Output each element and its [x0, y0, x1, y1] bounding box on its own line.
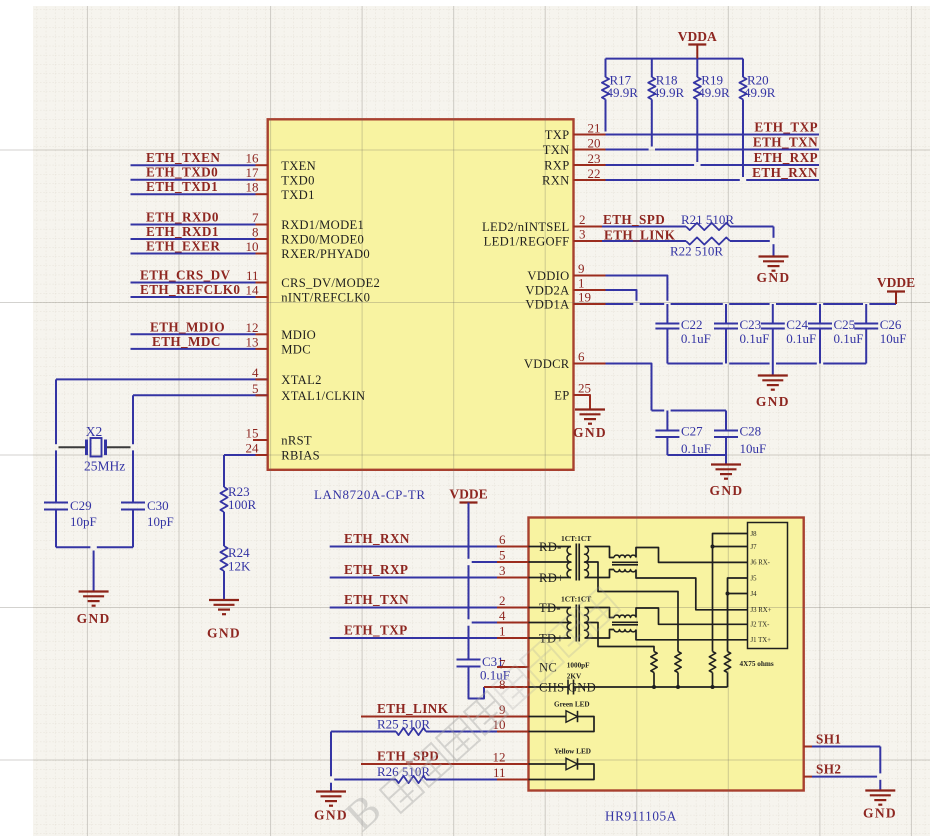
- pin 11 CRS_DV/MODE2 / net ETH_CRS_DV: [131, 268, 381, 291]
- capacitor C24 0.1uF: [761, 304, 816, 364]
- svg-text:4: 4: [499, 608, 506, 623]
- svg-text:10pF: 10pF: [147, 514, 174, 529]
- net SH1 wire: [804, 732, 881, 747]
- svg-text:nINT/REFCLK0: nINT/REFCLK0: [281, 291, 370, 305]
- svg-text:49.9R: 49.9R: [653, 85, 685, 100]
- LED yellow (pins 12/11): [529, 748, 595, 780]
- svg-text:9: 9: [578, 261, 585, 276]
- svg-text:GND: GND: [756, 394, 790, 409]
- ground GND (R24): [207, 600, 241, 641]
- svg-text:C26: C26: [880, 317, 902, 332]
- resistor 75 ohm #3: [709, 652, 715, 690]
- capacitor C30 10pF: [121, 498, 174, 547]
- svg-text:J7: J7: [751, 544, 758, 551]
- svg-text:VDDIO: VDDIO: [527, 269, 569, 283]
- svg-text:C24: C24: [786, 317, 808, 332]
- pin 16 TXEN / net ETH_TXEN: [131, 150, 317, 173]
- wire R21/R22 to ground: [773, 227, 775, 257]
- wire C31 to pin 8: [469, 667, 485, 699]
- svg-text:10: 10: [246, 239, 259, 254]
- pin 3 LED1/REGOFF / net ETH_LINK: [484, 227, 686, 249]
- svg-text:nRST: nRST: [281, 434, 312, 448]
- svg-text:ETH_TXP: ETH_TXP: [344, 623, 408, 638]
- svg-text:LED2/nINTSEL: LED2/nINTSEL: [482, 220, 570, 234]
- pin 3 RD+ / net ETH_RXP: [330, 562, 529, 578]
- resistor R23 100R: [220, 484, 256, 512]
- capacitor C22 0.1uF: [655, 304, 710, 364]
- svg-text:13: 13: [246, 334, 259, 349]
- svg-text:RBIAS: RBIAS: [281, 449, 320, 463]
- svg-text:ETH_REFCLK0: ETH_REFCLK0: [140, 282, 240, 297]
- svg-text:ETH_EXER: ETH_EXER: [146, 239, 220, 254]
- svg-text:GND: GND: [207, 626, 241, 641]
- svg-text:SH2: SH2: [816, 762, 841, 777]
- svg-text:12: 12: [493, 750, 506, 765]
- choke L2 (TX): [585, 608, 639, 639]
- svg-text:MDC: MDC: [281, 343, 311, 357]
- pin 6 RD- / net ETH_RXN: [330, 531, 529, 547]
- svg-text:1CT:1CT: 1CT:1CT: [561, 534, 591, 543]
- capacitor C26 10uF: [854, 304, 906, 364]
- svg-text:Yellow LED: Yellow LED: [554, 748, 591, 756]
- capacitor C31 0.1uF: [457, 654, 510, 683]
- svg-text:4X75 ohms: 4X75 ohms: [740, 660, 774, 668]
- svg-text:R21 510R: R21 510R: [681, 212, 734, 227]
- pin 6 VDDCR wire: [524, 349, 726, 411]
- resistor 75 ohm #4: [724, 652, 730, 688]
- svg-text:100R: 100R: [228, 497, 257, 512]
- svg-text:3: 3: [499, 563, 506, 578]
- capacitor C28 10uF: [714, 411, 766, 457]
- svg-text:RXD1/MODE1: RXD1/MODE1: [281, 218, 364, 232]
- svg-text:ETH_CRS_DV: ETH_CRS_DV: [140, 268, 231, 283]
- pin 2 TD- / net ETH_TXN: [330, 592, 529, 608]
- wire bus top rail for R17-R20: [606, 58, 744, 60]
- HR pin names: [539, 540, 596, 695]
- svg-text:2KV: 2KV: [567, 673, 582, 681]
- svg-text:25MHz: 25MHz: [84, 459, 125, 474]
- wire SH1/SH2 junction to ground: [879, 747, 881, 791]
- svg-text:15: 15: [246, 426, 259, 441]
- wire RX choke to J6: [636, 548, 748, 563]
- svg-text:20: 20: [588, 135, 601, 150]
- svg-text:Green LED: Green LED: [554, 701, 590, 709]
- svg-text:5: 5: [252, 381, 259, 396]
- wire bottom rail X2: [56, 547, 133, 591]
- svg-text:6: 6: [499, 532, 506, 547]
- transformer T2 (TX) 1CT:1CT: [529, 595, 592, 642]
- transformer T1 (RX) 1CT:1CT: [529, 534, 592, 581]
- svg-text:5: 5: [499, 548, 506, 563]
- svg-text:49.9R: 49.9R: [744, 85, 776, 100]
- svg-text:1000pF: 1000pF: [567, 662, 590, 670]
- connector J1 HR911105A body: [529, 518, 804, 791]
- pin 1 TD+ / net ETH_TXP: [330, 623, 529, 639]
- svg-text:14: 14: [246, 283, 260, 298]
- svg-text:24: 24: [246, 441, 260, 456]
- svg-text:4: 4: [252, 365, 259, 380]
- svg-text:C29: C29: [70, 498, 92, 513]
- wire RBIAS down: [223, 455, 225, 487]
- svg-text:12: 12: [246, 320, 259, 335]
- svg-text:ETH_SPD: ETH_SPD: [603, 212, 665, 227]
- wire J5/J4 to resistor: [726, 578, 748, 652]
- pin 5 XTAL1/CLKIN wire: [133, 381, 365, 503]
- pin 13 MDC / net ETH_MDC: [131, 334, 311, 357]
- svg-text:TXP: TXP: [545, 128, 570, 142]
- svg-text:10uF: 10uF: [740, 441, 767, 456]
- svg-text:11: 11: [493, 765, 506, 780]
- pin 9 VDDIO wire: [527, 261, 667, 301]
- svg-text:J4: J4: [751, 591, 758, 598]
- resistor 75 ohm #1: [651, 652, 657, 690]
- svg-text:R22 510R: R22 510R: [670, 244, 723, 259]
- wire crystal left leg down: [55, 379, 57, 444]
- resistor R24 12K: [220, 545, 251, 574]
- svg-text:SH1: SH1: [816, 732, 841, 747]
- IC U1 LAN8720A-CP-TR body: [268, 119, 574, 470]
- svg-text:0.1uF: 0.1uF: [681, 441, 711, 456]
- svg-text:C28: C28: [740, 424, 762, 439]
- svg-text:6: 6: [578, 349, 585, 364]
- resistor R20 49.9R: [739, 59, 775, 177]
- svg-text:10uF: 10uF: [880, 331, 907, 346]
- svg-text:23: 23: [588, 151, 601, 166]
- svg-text:16: 16: [246, 151, 260, 166]
- svg-text:TXD0: TXD0: [281, 173, 314, 187]
- svg-text:C27: C27: [681, 424, 703, 439]
- svg-text:VDD2A: VDD2A: [525, 284, 569, 298]
- svg-text:GND: GND: [77, 611, 111, 626]
- svg-text:2: 2: [579, 212, 586, 227]
- svg-text:12K: 12K: [228, 559, 251, 574]
- pin 24 RBIAS wire: [224, 441, 320, 463]
- wire RX center tap to resistor: [585, 562, 679, 652]
- pin 5 RD center tap wire (VDDE): [472, 548, 529, 563]
- capacitor C23 0.1uF: [714, 304, 769, 364]
- resistor R25 510R on pin 10: [331, 717, 529, 736]
- pin 25 EP wire: [554, 381, 591, 410]
- svg-text:GND: GND: [573, 425, 607, 440]
- svg-text:21: 21: [588, 120, 601, 135]
- resistor R22 510R: [670, 237, 770, 258]
- wire TX choke to J2: [636, 608, 748, 624]
- svg-text:GND: GND: [757, 270, 791, 285]
- choke L1 (RX): [585, 547, 639, 578]
- ground GND (C27/C28): [710, 465, 744, 499]
- wire TX center tap to resistor: [585, 623, 655, 652]
- wire to ground (C27/C28): [725, 455, 727, 465]
- wire RX choke to J3: [636, 570, 748, 610]
- svg-text:C30: C30: [147, 498, 169, 513]
- svg-text:J1 TX+: J1 TX+: [751, 637, 772, 644]
- wire to ground (caps): [772, 364, 774, 376]
- svg-text:RXD0/MODE0: RXD0/MODE0: [281, 233, 364, 247]
- svg-text:1: 1: [499, 624, 506, 639]
- svg-text:0.1uF: 0.1uF: [740, 331, 770, 346]
- wire R23 to R24: [223, 512, 225, 546]
- pin 19 VDD1A / power rail wire: [525, 290, 896, 312]
- svg-text:TD-: TD-: [539, 601, 561, 615]
- LED green (pins 9/10): [529, 701, 595, 732]
- svg-text:MDIO: MDIO: [281, 328, 316, 342]
- svg-text:ETH_MDIO: ETH_MDIO: [150, 319, 225, 334]
- svg-text:ETH_RXP: ETH_RXP: [344, 562, 408, 577]
- svg-text:ETH_TXD0: ETH_TXD0: [146, 165, 218, 180]
- svg-text:3: 3: [579, 227, 586, 242]
- svg-text:TXN: TXN: [543, 143, 570, 157]
- wire R25/R26 to ground: [330, 732, 332, 792]
- svg-text:19: 19: [578, 290, 591, 305]
- svg-text:18: 18: [246, 180, 259, 195]
- svg-text:0.1uF: 0.1uF: [834, 331, 864, 346]
- capacitor 1000pF 2KV (chassis): [529, 662, 728, 695]
- svg-text:RXER/PHYAD0: RXER/PHYAD0: [281, 247, 370, 261]
- pin 23 RXP / net ETH_RXP: [544, 150, 819, 173]
- svg-text:XTAL1/CLKIN: XTAL1/CLKIN: [281, 389, 365, 403]
- svg-text:VDD1A: VDD1A: [525, 298, 569, 312]
- svg-text:49.9R: 49.9R: [607, 85, 639, 100]
- pin 21 TXP / net ETH_TXP: [545, 120, 819, 143]
- pin 12 / net ETH_SPD wire: [361, 749, 529, 765]
- power VDDE (rail): [877, 275, 915, 304]
- svg-text:J6 RX-: J6 RX-: [751, 560, 771, 567]
- svg-text:J8: J8: [751, 531, 758, 538]
- svg-text:17: 17: [246, 165, 260, 180]
- svg-text:RXN: RXN: [542, 174, 570, 188]
- svg-text:HR911105A: HR911105A: [605, 809, 677, 824]
- svg-text:ETH_LINK: ETH_LINK: [377, 701, 449, 716]
- svg-text:C23: C23: [740, 317, 762, 332]
- svg-text:ETH_TXN: ETH_TXN: [344, 592, 409, 607]
- pin 2 LED2/nINTSEL / net ETH_SPD: [482, 212, 686, 234]
- svg-text:C25: C25: [834, 317, 856, 332]
- pin 9 / net ETH_LINK wire: [361, 701, 529, 717]
- svg-text:ETH_LINK: ETH_LINK: [604, 228, 676, 243]
- svg-text:RD+: RD+: [539, 571, 565, 585]
- svg-text:LAN8720A-CP-TR: LAN8720A-CP-TR: [314, 487, 426, 502]
- power VDDA: [678, 29, 717, 59]
- svg-text:22: 22: [588, 166, 601, 181]
- power VDDE (HR block): [449, 487, 487, 660]
- svg-text:R25 510R: R25 510R: [377, 717, 430, 732]
- ground GND (EP): [573, 410, 607, 441]
- pin 8 CHS GND stub: [484, 677, 529, 692]
- wire C27/C28 bottom rail: [667, 454, 726, 456]
- resistor R17 49.9R: [602, 59, 638, 132]
- resistor R21 510R: [681, 212, 774, 230]
- svg-text:ETH_RXN: ETH_RXN: [344, 531, 410, 546]
- svg-text:J2 TX-: J2 TX-: [751, 622, 771, 629]
- capacitor C25 0.1uF: [808, 304, 863, 364]
- wire TX choke to J1: [636, 630, 748, 640]
- ground GND (SH): [863, 791, 897, 821]
- pin 1 VDD2A wire: [525, 276, 636, 301]
- resistor R26 510R on pin 11: [334, 764, 528, 783]
- pin 15 nRST stub: [246, 426, 312, 448]
- svg-text:11: 11: [246, 268, 259, 283]
- pin 17 TXD0 / net ETH_TXD0: [131, 165, 315, 188]
- svg-text:49.9R: 49.9R: [698, 85, 730, 100]
- capacitor C29 10pF: [44, 498, 97, 547]
- ground GND (C22-C26): [756, 376, 790, 410]
- svg-text:0.1uF: 0.1uF: [786, 331, 816, 346]
- svg-text:CHS GND: CHS GND: [539, 681, 596, 695]
- svg-text:X2: X2: [86, 424, 103, 439]
- resistor 75 ohm #2: [675, 652, 681, 690]
- svg-text:VDDE: VDDE: [449, 487, 487, 502]
- svg-text:CRS_DV/MODE2: CRS_DV/MODE2: [281, 276, 380, 290]
- svg-text:8: 8: [252, 225, 259, 240]
- svg-text:7: 7: [252, 210, 259, 225]
- pin 8 RXD0/MODE0 / net ETH_RXD1: [131, 224, 365, 247]
- net SH2 wire: [804, 762, 877, 777]
- pin 22 RXN / net ETH_RXN: [542, 165, 819, 188]
- pin 20 TXN / net ETH_TXN: [543, 135, 819, 158]
- svg-text:ETH_RXD1: ETH_RXD1: [146, 224, 219, 239]
- svg-text:RD-: RD-: [539, 540, 562, 554]
- svg-text:TXD1: TXD1: [281, 188, 314, 202]
- svg-text:LED1/REGOFF: LED1/REGOFF: [484, 235, 570, 249]
- resistor R19 49.9R: [694, 59, 730, 162]
- svg-text:EP: EP: [554, 389, 569, 403]
- svg-text:ETH_TXP: ETH_TXP: [754, 120, 818, 135]
- svg-text:TXEN: TXEN: [281, 159, 316, 173]
- svg-text:ETH_RXP: ETH_RXP: [754, 150, 818, 165]
- pin 18 TXD1 / net ETH_TXD1: [131, 179, 315, 202]
- svg-text:GND: GND: [710, 483, 744, 498]
- wire R24 to ground: [223, 571, 225, 600]
- resistor R18 49.9R: [648, 59, 684, 147]
- svg-text:ETH_MDC: ETH_MDC: [152, 334, 221, 349]
- svg-text:VDDCR: VDDCR: [524, 357, 570, 371]
- pin 4 TD center tap wire (VDDE): [472, 608, 529, 623]
- svg-text:ETH_TXN: ETH_TXN: [753, 135, 818, 150]
- svg-text:0.1uF: 0.1uF: [681, 331, 711, 346]
- connector block J1-J8: [748, 523, 788, 649]
- svg-text:RXP: RXP: [544, 159, 569, 173]
- svg-text:XTAL2: XTAL2: [281, 373, 321, 387]
- svg-text:VDDA: VDDA: [678, 29, 717, 44]
- svg-text:J3 RX+: J3 RX+: [751, 607, 772, 614]
- svg-text:1: 1: [578, 276, 585, 291]
- svg-text:ETH_RXD0: ETH_RXD0: [146, 210, 219, 225]
- pin 10 RXER/PHYAD0 / net ETH_EXER: [131, 239, 370, 262]
- pin 7 NC stub: [497, 657, 529, 672]
- svg-text:J5: J5: [751, 575, 758, 582]
- wire cap bottom rail: [667, 363, 722, 365]
- svg-text:C22: C22: [681, 317, 703, 332]
- svg-text:ETH_RXN: ETH_RXN: [752, 165, 818, 180]
- svg-text:25: 25: [578, 381, 591, 396]
- pin 4 XTAL2 wire: [56, 365, 322, 387]
- svg-text:ETH_TXEN: ETH_TXEN: [146, 150, 220, 165]
- svg-text:R26 510R: R26 510R: [377, 764, 430, 779]
- svg-text:10pF: 10pF: [70, 514, 97, 529]
- ground GND (R25/R26): [314, 792, 348, 823]
- svg-text:ETH_TXD1: ETH_TXD1: [146, 179, 218, 194]
- svg-text:7: 7: [499, 657, 506, 672]
- svg-text:GND: GND: [863, 806, 897, 821]
- pin 12 MDIO / net ETH_MDIO: [131, 319, 317, 342]
- wire J8/J7 to resistor: [711, 534, 748, 652]
- ground GND (R21/R22): [757, 257, 791, 286]
- crystal X2 25MHz: [59, 424, 131, 474]
- svg-text:VDDE: VDDE: [877, 275, 915, 290]
- pin 7 RXD1/MODE1 / net ETH_RXD0: [131, 210, 365, 233]
- ground GND (X2): [77, 592, 111, 627]
- capacitor C27 0.1uF: [655, 411, 711, 457]
- svg-text:2: 2: [499, 593, 506, 608]
- pin 14 nINT/REFCLK0 / net ETH_REFCLK0: [131, 282, 371, 305]
